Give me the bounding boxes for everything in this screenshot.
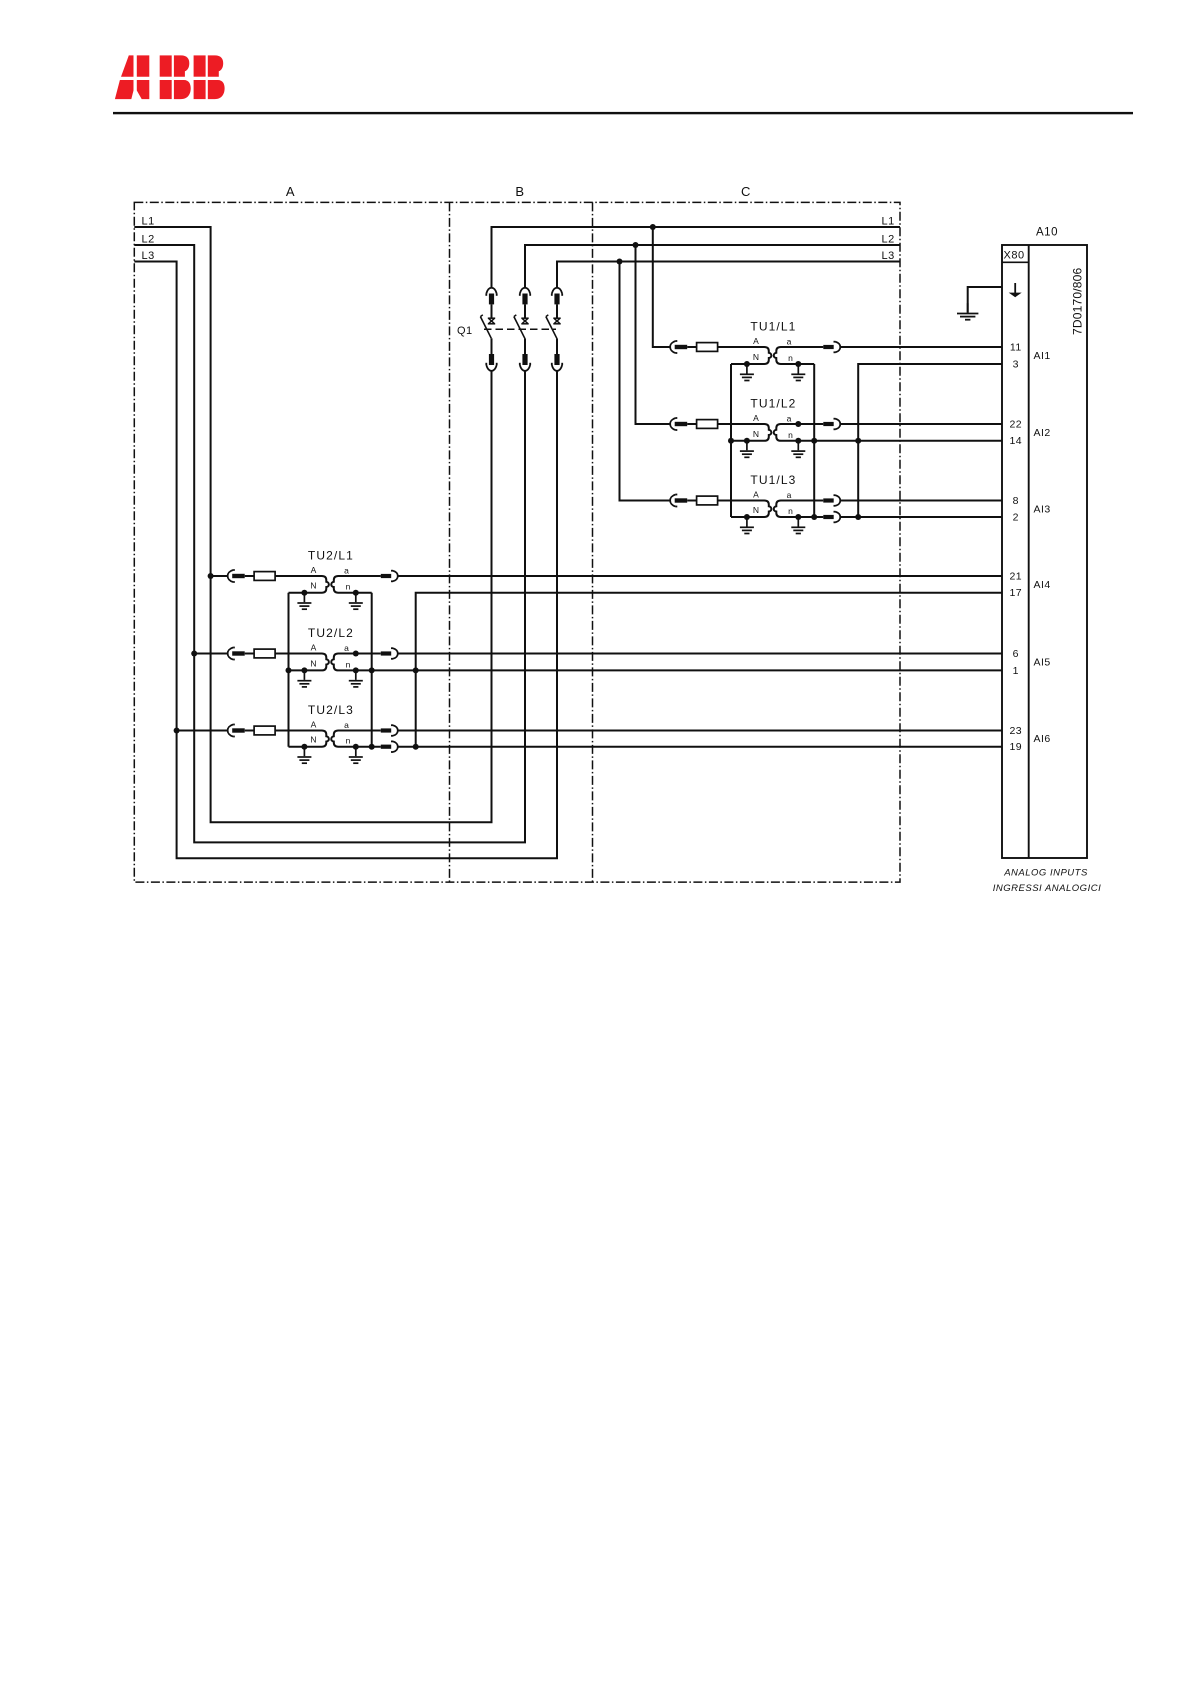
disconnect terminal of TU1/L1 secondary a: [823, 342, 840, 353]
module A10 terminal column divider: [1028, 245, 1030, 858]
junction N terminal of TU1/L1: [744, 361, 750, 367]
svg-text:AI4: AI4: [1034, 579, 1051, 591]
junction N terminal of TU2/L1: [301, 590, 307, 596]
svg-text:a: a: [344, 565, 349, 575]
svg-text:L2: L2: [142, 234, 155, 246]
svg-text:a: a: [344, 720, 349, 730]
svg-text:n: n: [788, 430, 793, 440]
primary winding of TU2/L2: [275, 654, 329, 671]
wire n-common to terminal block: [416, 593, 1002, 747]
junction N terminal of TU1/L2: [744, 438, 750, 444]
svg-text:TU2/L3: TU2/L3: [308, 703, 354, 717]
wire connector to fuse of TU2/L1: [245, 575, 254, 577]
svg-text:N: N: [753, 352, 760, 362]
svg-text:A: A: [311, 565, 317, 575]
svg-text:6: 6: [1013, 648, 1019, 660]
fuse F TU1/L2: [697, 420, 718, 429]
disconnect terminal of TU2/L1 secondary a: [381, 571, 398, 582]
wire connector to fuse of TU1/L3: [687, 500, 696, 502]
svg-text:TU1/L1: TU1/L1: [750, 319, 796, 333]
svg-text:Q1: Q1: [457, 325, 473, 337]
svg-text:21: 21: [1009, 570, 1022, 582]
svg-text:22: 22: [1009, 418, 1022, 430]
svg-text:A: A: [286, 184, 295, 199]
wire TU2/L1 n to n-bus: [356, 592, 372, 594]
svg-text:L1: L1: [142, 216, 155, 228]
svg-text:AI6: AI6: [1034, 733, 1051, 745]
wire connector to fuse of TU1/L1: [687, 346, 696, 348]
breaker Q1 pole 1: [480, 288, 496, 371]
wire tap to TU1/L2 primary: [636, 245, 670, 424]
svg-text:11: 11: [1010, 341, 1022, 353]
fuse F TU1/L3: [697, 496, 718, 505]
cubicle divider A/B: [449, 202, 451, 882]
svg-text:N: N: [310, 581, 317, 591]
cubicle boundary box: [134, 202, 900, 882]
svg-text:N: N: [753, 429, 760, 439]
ground at N of TU1/L3: [740, 517, 754, 534]
disconnect terminal of TU1/L3 secondary n: [823, 512, 840, 523]
disconnect terminal of TU1/L3 secondary a: [823, 495, 840, 506]
disconnect terminal of TU2/L3 primary: [228, 725, 245, 737]
junction n terminal of TU2/L3: [353, 744, 359, 750]
wire TU2/L3 n to terminal block: [398, 746, 1002, 748]
ground at N of TU2/L2: [297, 670, 311, 687]
svg-text:a: a: [787, 490, 792, 500]
wire tap to TU1/L1 primary: [653, 227, 670, 347]
wire TU2/L2 n to terminal block: [356, 669, 1002, 671]
svg-text:AI2: AI2: [1034, 427, 1051, 439]
junction N terminal of TU1/L3: [744, 514, 750, 520]
svg-text:X80: X80: [1004, 250, 1025, 262]
wire TU2/L1 secondary a to terminal block: [398, 575, 1002, 577]
junction n-common end junction at TU2/L3: [413, 744, 419, 750]
wire TU2/L2 secondary a to terminal block: [398, 653, 1002, 655]
junction n-common end junction at TU1/L3: [855, 514, 861, 520]
breaker Q1 pole 2: [514, 288, 530, 371]
voltage transformer bank TU1 n-bus: [813, 364, 815, 517]
junction tap of TU1/L2 on feeder bus: [633, 242, 639, 248]
svg-text:TU2/L1: TU2/L1: [308, 548, 354, 562]
disconnect terminal of TU2/L3 secondary a: [381, 725, 398, 736]
svg-text:N: N: [310, 658, 317, 668]
svg-text:AI3: AI3: [1034, 503, 1051, 515]
disconnect terminal of TU2/L2 secondary a: [381, 648, 398, 659]
svg-text:n: n: [346, 582, 351, 592]
ground at n of TU2/L3: [349, 747, 363, 764]
fuse F TU2/L2: [254, 649, 275, 658]
svg-text:A: A: [753, 336, 759, 346]
wire n-common to terminal block: [858, 364, 1002, 517]
secondary winding of TU1/L3: [774, 501, 824, 518]
voltage transformer bank TU2 n-bus: [371, 593, 373, 747]
svg-text:A: A: [311, 643, 317, 653]
secondary winding of TU2/L2: [331, 654, 381, 671]
junction N-bus junction at TU1/L2: [728, 438, 734, 444]
svg-text:1: 1: [1013, 665, 1019, 677]
junction a terminal of TU2/L2: [353, 651, 359, 657]
svg-text:ANALOG INPUTS: ANALOG INPUTS: [1003, 868, 1088, 879]
earth pin arrow symbol: [1009, 283, 1022, 297]
ABB logo: [115, 55, 225, 99]
junction tap of TU2/L3 on feeder riser: [174, 728, 180, 734]
svg-text:n: n: [788, 506, 793, 516]
junction n-bus junction at TU1/L2: [811, 438, 817, 444]
svg-text:14: 14: [1009, 435, 1022, 447]
primary winding of TU2/L1: [275, 576, 329, 593]
svg-text:2: 2: [1013, 511, 1019, 523]
svg-text:19: 19: [1009, 741, 1022, 753]
svg-text:B: B: [515, 184, 524, 199]
svg-text:AI5: AI5: [1034, 657, 1051, 669]
voltage transformer bank TU1 N-bus: [730, 364, 732, 517]
junction n terminal of TU1/L2: [795, 438, 801, 444]
cubicle divider B/C: [592, 202, 594, 882]
ground at n of TU2/L2: [349, 670, 363, 687]
svg-text:7D0170/806: 7D0170/806: [1071, 267, 1085, 335]
svg-text:17: 17: [1009, 587, 1022, 599]
wire L1 left feeder: [134, 227, 491, 822]
svg-text:A: A: [753, 413, 759, 423]
svg-text:3: 3: [1013, 358, 1019, 370]
junction n terminal of TU1/L3: [795, 514, 801, 520]
svg-text:A: A: [311, 720, 317, 730]
disconnect terminal of TU1/L1 primary: [670, 341, 687, 353]
svg-text:n: n: [346, 736, 351, 746]
header rule: [113, 112, 1133, 114]
fuse F TU2/L1: [254, 572, 275, 581]
junction n-common junction at TU2/L2: [413, 667, 419, 673]
ground at N of TU1/L2: [740, 441, 754, 458]
junction tap of TU1/L3 on feeder bus: [617, 259, 623, 265]
junction tap of TU2/L1 on feeder riser: [208, 573, 214, 579]
ground at n of TU1/L3: [791, 517, 805, 534]
junction tap of TU2/L2 on feeder riser: [191, 651, 197, 657]
secondary winding of TU1/L1: [774, 347, 824, 364]
disconnect terminal of TU2/L2 primary: [228, 648, 245, 660]
wire connector to fuse of TU2/L3: [245, 730, 254, 732]
svg-text:n: n: [788, 353, 793, 363]
wire TU1/L2 n to terminal block: [798, 440, 1002, 442]
wire L2 right bus: [525, 245, 900, 288]
wire TU1/L3 secondary a to terminal block: [841, 500, 1002, 502]
disconnect terminal of TU1/L2 primary: [670, 418, 687, 430]
svg-text:A: A: [753, 490, 759, 500]
wire TU2/L3 n to disconnect: [356, 746, 381, 748]
ground at n of TU1/L2: [791, 441, 805, 458]
module A10 outline: [1002, 245, 1087, 858]
svg-text:23: 23: [1009, 725, 1022, 737]
wire L3 right bus: [557, 262, 900, 288]
junction N terminal of TU2/L2: [301, 667, 307, 673]
wire L2 left feeder: [134, 245, 525, 842]
svg-text:A10: A10: [1036, 227, 1058, 239]
voltage transformer bank TU2 N-bus: [288, 593, 290, 747]
wire TU1/L1 secondary a to terminal block: [841, 346, 1002, 348]
ground at N of TU2/L1: [297, 593, 311, 610]
fuse F TU1/L1: [697, 343, 718, 352]
svg-text:a: a: [787, 413, 792, 423]
ground at N of TU1/L1: [740, 364, 754, 381]
junction N-bus junction at TU2/L2: [286, 667, 292, 673]
wire tap to TU2/L1 primary: [211, 575, 228, 577]
primary winding of TU1/L1: [718, 347, 772, 364]
ground at n of TU1/L1: [791, 364, 805, 381]
wire connector to fuse of TU2/L2: [245, 653, 254, 655]
svg-text:n: n: [346, 659, 351, 669]
terminal strip X80 box: [1002, 261, 1029, 263]
breaker Q1 pole 3: [546, 288, 562, 371]
wire TU2/L3 secondary a to terminal block: [398, 730, 1002, 732]
wire tap to TU2/L3 primary: [177, 730, 228, 732]
svg-text:N: N: [310, 735, 317, 745]
svg-text:N: N: [753, 505, 760, 515]
ground at n of TU2/L1: [349, 593, 363, 610]
junction N terminal of TU2/L3: [301, 744, 307, 750]
svg-text:INGRESSI ANALOGICI: INGRESSI ANALOGICI: [993, 883, 1101, 894]
wire L3 left feeder: [134, 262, 557, 859]
disconnect terminal of TU1/L2 secondary a: [823, 419, 840, 430]
primary winding of TU2/L3: [275, 731, 329, 747]
junction n terminal of TU1/L1: [795, 361, 801, 367]
wire earth pin: [968, 287, 1002, 313]
ground at N of TU2/L3: [297, 747, 311, 764]
primary winding of TU1/L2: [718, 424, 772, 441]
ground protective earth at X80: [957, 303, 978, 320]
wire L1 right bus: [492, 227, 901, 288]
fuse F TU2/L3: [254, 726, 275, 735]
svg-text:L2: L2: [882, 234, 895, 246]
disconnect terminal of TU1/L3 primary: [670, 495, 687, 507]
wire TU1/L2 secondary a to terminal block: [841, 423, 1002, 425]
junction n terminal of TU2/L1: [353, 590, 359, 596]
wire tap to TU2/L2 primary: [194, 653, 227, 655]
svg-text:TU2/L2: TU2/L2: [308, 626, 354, 640]
disconnect terminal of TU2/L3 secondary n: [381, 741, 398, 752]
wire TU1/L3 n to disconnect: [798, 516, 823, 518]
svg-text:L3: L3: [882, 250, 895, 262]
wire TU1/L3 n to terminal block: [841, 516, 1002, 518]
svg-text:AI1: AI1: [1034, 350, 1051, 362]
svg-text:a: a: [787, 336, 792, 346]
disconnect terminal of TU2/L1 primary: [228, 570, 245, 582]
wire tap to TU1/L3 primary: [620, 262, 670, 501]
junction n-bus end junction at TU1/L3: [811, 514, 817, 520]
svg-text:a: a: [344, 643, 349, 653]
primary winding of TU1/L3: [718, 501, 772, 518]
junction tap of TU1/L1 on feeder bus: [650, 224, 656, 230]
svg-text:TU1/L3: TU1/L3: [750, 473, 796, 487]
junction n terminal of TU2/L2: [353, 667, 359, 673]
svg-text:L3: L3: [142, 250, 155, 262]
svg-text:C: C: [741, 184, 751, 199]
svg-text:8: 8: [1013, 495, 1019, 507]
junction a terminal of TU1/L2: [795, 421, 801, 427]
secondary winding of TU1/L2: [774, 424, 824, 441]
wire connector to fuse of TU1/L2: [687, 423, 696, 425]
secondary winding of TU2/L3: [331, 731, 381, 747]
svg-text:TU1/L2: TU1/L2: [750, 396, 796, 410]
secondary winding of TU2/L1: [331, 576, 381, 593]
junction n-bus end junction at TU2/L3: [369, 744, 375, 750]
breaker Q1 linkage dashed line: [484, 328, 556, 330]
junction n-common junction at TU1/L2: [855, 438, 861, 444]
svg-text:L1: L1: [882, 216, 895, 228]
wire TU1/L1 n to n-bus: [798, 363, 814, 365]
junction n-bus junction at TU2/L2: [369, 667, 375, 673]
